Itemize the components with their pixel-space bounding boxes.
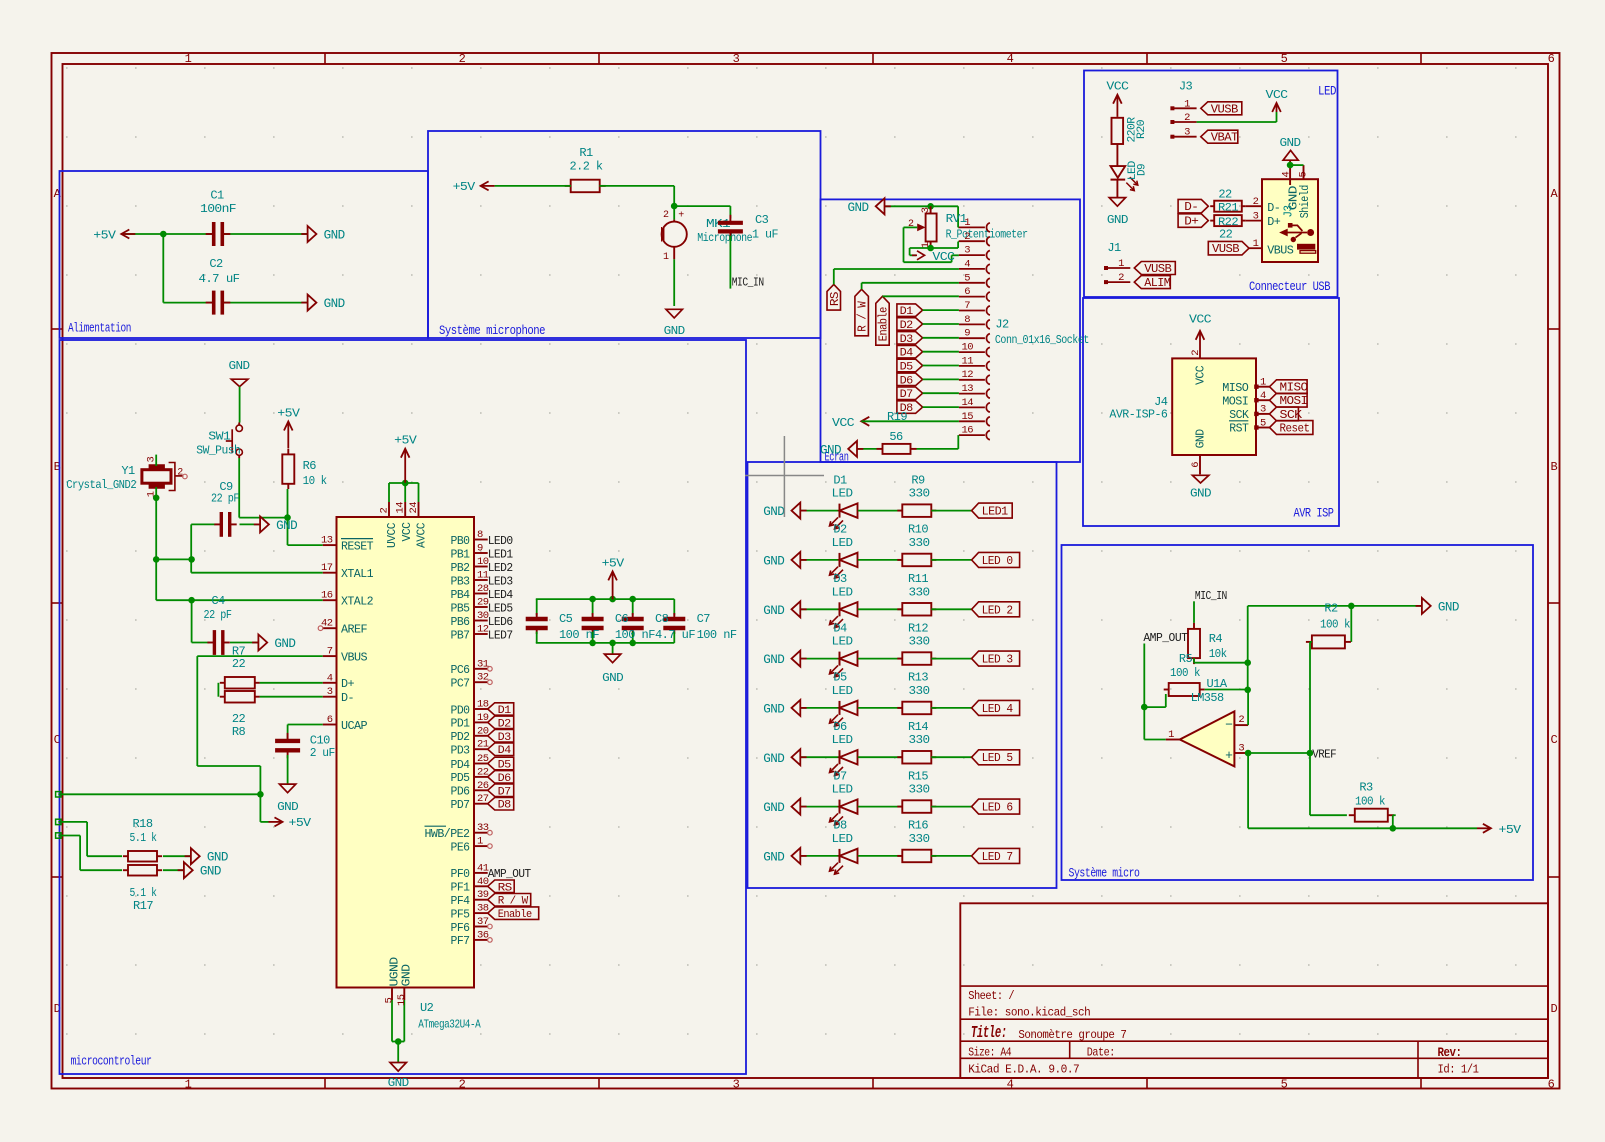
svg-text:+5V: +5V <box>394 434 417 448</box>
svg-text:C5: C5 <box>559 612 573 626</box>
svg-text:VUSB: VUSB <box>1212 243 1240 256</box>
svg-text:VBUS: VBUS <box>1267 244 1294 257</box>
svg-text:LED: LED <box>832 635 853 649</box>
svg-text:R15: R15 <box>908 769 928 783</box>
svg-text:VCC: VCC <box>932 250 954 264</box>
svg-text:Id: 1/1: Id: 1/1 <box>1438 1062 1479 1076</box>
svg-text:100 nF: 100 nF <box>559 628 599 642</box>
svg-text:D7: D7 <box>833 769 847 783</box>
svg-text:LED2: LED2 <box>488 561 513 575</box>
svg-text:1: 1 <box>1168 729 1174 741</box>
svg-text:32: 32 <box>477 672 489 684</box>
svg-text:7: 7 <box>964 300 970 312</box>
svg-text:D2: D2 <box>833 523 847 537</box>
svg-text:GND: GND <box>274 637 295 651</box>
svg-text:PD3: PD3 <box>451 745 471 758</box>
svg-text:AMP_OUT: AMP_OUT <box>488 867 531 881</box>
svg-text:LM358: LM358 <box>1191 691 1224 705</box>
svg-text:16: 16 <box>321 590 333 602</box>
svg-text:9: 9 <box>477 543 483 555</box>
svg-text:PB6: PB6 <box>451 616 471 629</box>
svg-text:4: 4 <box>1007 52 1014 66</box>
svg-text:D8: D8 <box>833 819 847 833</box>
svg-text:PF6: PF6 <box>451 922 471 935</box>
svg-text:D6: D6 <box>833 720 847 734</box>
svg-text:U1A: U1A <box>1207 677 1228 691</box>
svg-text:1: 1 <box>663 252 669 263</box>
svg-text:LED 6: LED 6 <box>982 802 1014 815</box>
svg-text:AMP_OUT: AMP_OUT <box>1143 631 1187 645</box>
svg-text:6: 6 <box>1548 52 1555 66</box>
svg-text:12: 12 <box>961 369 973 381</box>
svg-text:D+: D+ <box>1267 216 1281 229</box>
svg-text:D2: D2 <box>498 718 511 730</box>
svg-text:RS: RS <box>829 291 842 306</box>
svg-text:GND: GND <box>763 850 784 864</box>
svg-text:R6: R6 <box>303 459 317 473</box>
svg-text:17: 17 <box>321 562 333 574</box>
svg-text:LED 5: LED 5 <box>982 752 1014 765</box>
svg-text:22 pF: 22 pF <box>211 492 239 506</box>
svg-text:PB3: PB3 <box>451 575 471 588</box>
svg-text:330: 330 <box>909 684 930 698</box>
svg-text:10: 10 <box>961 342 973 354</box>
svg-text:GND: GND <box>207 851 228 865</box>
svg-text:PB1: PB1 <box>451 548 471 561</box>
svg-text:D+: D+ <box>1184 216 1199 229</box>
svg-text:5.1 k: 5.1 k <box>130 886 157 900</box>
svg-text:3: 3 <box>964 245 970 257</box>
svg-text:6: 6 <box>1190 462 1202 468</box>
svg-text:14: 14 <box>395 502 407 514</box>
svg-text:Alimentation: Alimentation <box>68 322 131 336</box>
svg-text:SW_Push: SW_Push <box>196 444 240 458</box>
svg-text:5: 5 <box>1281 1078 1288 1092</box>
svg-text:B: B <box>1550 460 1557 474</box>
svg-text:D5: D5 <box>498 760 511 772</box>
svg-text:Système micro: Système micro <box>1069 867 1140 881</box>
svg-text:9: 9 <box>964 328 970 340</box>
svg-text:LED6: LED6 <box>488 615 513 629</box>
svg-text:6: 6 <box>327 714 333 726</box>
svg-text:4: 4 <box>1281 172 1293 178</box>
svg-text:GND: GND <box>277 800 298 814</box>
svg-text:1: 1 <box>185 1078 192 1092</box>
svg-text:−: − <box>1225 717 1233 732</box>
svg-text:PF1: PF1 <box>451 882 471 895</box>
svg-text:AREF: AREF <box>341 624 368 637</box>
svg-text:LED: LED <box>832 733 853 747</box>
svg-text:R13: R13 <box>908 671 928 685</box>
svg-text:1: 1 <box>1253 238 1259 250</box>
svg-text:SCK: SCK <box>1229 409 1249 422</box>
svg-text:D-: D- <box>341 692 354 705</box>
svg-text:22 pF: 22 pF <box>204 608 232 622</box>
svg-text:3: 3 <box>1238 742 1244 754</box>
svg-text:4.7 uF: 4.7 uF <box>199 272 240 286</box>
svg-text:VBUS: VBUS <box>341 651 368 664</box>
svg-text:HWB/PE2: HWB/PE2 <box>425 828 471 841</box>
svg-text:GND: GND <box>763 752 784 766</box>
svg-text:2: 2 <box>908 219 914 230</box>
svg-text:7: 7 <box>327 646 333 658</box>
svg-text:D9: D9 <box>1136 164 1148 176</box>
svg-text:GND: GND <box>1195 429 1208 449</box>
svg-text:D1: D1 <box>900 306 914 318</box>
svg-text:3: 3 <box>327 686 333 698</box>
svg-text:4: 4 <box>964 258 970 270</box>
svg-text:PC7: PC7 <box>451 678 470 691</box>
svg-text:R12: R12 <box>908 621 928 635</box>
svg-text:8: 8 <box>477 529 483 541</box>
svg-text:J3: J3 <box>1283 205 1296 218</box>
svg-text:LED: LED <box>832 783 853 797</box>
svg-text:10 k: 10 k <box>303 474 327 488</box>
svg-text:GND: GND <box>324 297 345 311</box>
svg-text:33: 33 <box>477 822 489 834</box>
svg-text:VCC: VCC <box>1189 313 1211 327</box>
svg-text:Title:: Title: <box>971 1023 1007 1042</box>
svg-text:LED: LED <box>832 684 853 698</box>
svg-text:4.7 uF: 4.7 uF <box>655 628 695 642</box>
svg-text:LED 0: LED 0 <box>982 555 1014 568</box>
svg-text:5: 5 <box>1281 52 1288 66</box>
svg-text:3: 3 <box>1184 127 1190 139</box>
svg-text:R5: R5 <box>1179 652 1193 666</box>
svg-text:GND: GND <box>763 604 784 618</box>
svg-text:R20: R20 <box>1136 120 1148 139</box>
svg-text:PD6: PD6 <box>451 786 471 799</box>
svg-text:D3: D3 <box>900 334 913 346</box>
svg-text:+: + <box>1225 748 1233 763</box>
svg-text:MISO: MISO <box>1222 382 1249 395</box>
svg-text:D3: D3 <box>833 572 847 586</box>
svg-text:GND: GND <box>1438 600 1459 614</box>
svg-text:22: 22 <box>232 657 246 671</box>
svg-text:4: 4 <box>327 672 333 684</box>
svg-text:D3: D3 <box>498 732 511 744</box>
svg-text:D: D <box>1550 1002 1557 1016</box>
svg-text:VBAT: VBAT <box>1211 132 1239 145</box>
svg-text:2: 2 <box>1238 714 1244 726</box>
svg-text:5.1 k: 5.1 k <box>130 831 157 845</box>
svg-text:4: 4 <box>1007 1078 1014 1092</box>
svg-text:2 uF: 2 uF <box>310 746 335 760</box>
svg-text:MOSI: MOSI <box>1222 395 1248 408</box>
svg-text:PB2: PB2 <box>451 562 471 575</box>
svg-text:VCC: VCC <box>1106 80 1128 94</box>
svg-text:100 nF: 100 nF <box>697 628 737 642</box>
svg-text:File: sono.kicad_sch: File: sono.kicad_sch <box>968 1005 1090 1019</box>
svg-text:14: 14 <box>961 397 973 409</box>
svg-text:R10: R10 <box>908 523 928 537</box>
svg-text:+5V: +5V <box>277 407 300 421</box>
svg-text:8: 8 <box>964 314 970 326</box>
svg-text:Enable: Enable <box>878 307 891 342</box>
svg-text:330: 330 <box>909 585 930 599</box>
svg-text:100nF: 100nF <box>200 202 236 216</box>
svg-text:Shield: Shield <box>1299 185 1312 218</box>
svg-text:C6: C6 <box>615 612 629 626</box>
svg-text:100 k: 100 k <box>1170 666 1200 680</box>
svg-text:LED1: LED1 <box>982 506 1009 519</box>
svg-text:D7: D7 <box>900 389 913 401</box>
svg-text:C7: C7 <box>697 612 711 626</box>
svg-text:C3: C3 <box>755 213 769 227</box>
svg-text:GND: GND <box>763 801 784 815</box>
svg-text:2: 2 <box>964 231 970 243</box>
svg-text:5: 5 <box>964 272 970 284</box>
svg-text:LED: LED <box>1318 85 1336 99</box>
svg-text:LED: LED <box>832 585 853 599</box>
svg-text:LED: LED <box>832 536 853 550</box>
svg-text:6: 6 <box>1548 1078 1555 1092</box>
svg-text:VCC: VCC <box>832 416 854 430</box>
svg-text:LED 3: LED 3 <box>982 654 1014 667</box>
svg-text:D5: D5 <box>833 671 847 685</box>
svg-text:PB5: PB5 <box>451 602 471 615</box>
svg-text:PB4: PB4 <box>451 589 471 602</box>
svg-text:330: 330 <box>909 635 930 649</box>
svg-text:Y1: Y1 <box>121 464 135 478</box>
svg-text:1: 1 <box>477 836 483 848</box>
svg-text:AVR ISP: AVR ISP <box>1294 507 1334 521</box>
svg-text:LED3: LED3 <box>488 574 513 588</box>
svg-text:LED5: LED5 <box>488 601 513 615</box>
svg-text:D6: D6 <box>498 773 511 785</box>
svg-text:1 uF: 1 uF <box>752 227 778 241</box>
svg-text:Enable: Enable <box>498 909 532 921</box>
svg-text:MIC_IN: MIC_IN <box>732 275 764 289</box>
svg-text:2: 2 <box>1118 272 1124 284</box>
svg-text:XTAL2: XTAL2 <box>341 596 374 609</box>
svg-text:R1: R1 <box>579 146 593 160</box>
svg-text:GND: GND <box>401 964 414 987</box>
svg-text:C8: C8 <box>655 612 669 626</box>
svg-text:1: 1 <box>1184 98 1190 110</box>
svg-text:SW1: SW1 <box>208 429 230 443</box>
svg-text:GND: GND <box>763 505 784 519</box>
svg-text:RST: RST <box>1229 423 1249 436</box>
svg-text:AVR-ISP-6: AVR-ISP-6 <box>1109 408 1167 422</box>
svg-text:microcontroleur: microcontroleur <box>71 1055 152 1069</box>
svg-text:22: 22 <box>232 712 246 726</box>
svg-text:GND: GND <box>229 359 250 373</box>
svg-text:PF4: PF4 <box>451 895 471 908</box>
svg-text:GND: GND <box>1107 213 1128 227</box>
svg-text:LED0: LED0 <box>488 534 513 548</box>
svg-text:3: 3 <box>1253 210 1259 222</box>
svg-text:36: 36 <box>477 929 489 941</box>
svg-text:LED 2: LED 2 <box>982 604 1014 617</box>
svg-text:+5V: +5V <box>453 180 476 194</box>
svg-text:22: 22 <box>1219 228 1233 242</box>
svg-text:PC6: PC6 <box>451 664 471 677</box>
svg-text:2: 2 <box>663 210 669 221</box>
svg-text:R4: R4 <box>1209 632 1223 646</box>
svg-text:R9: R9 <box>911 473 925 487</box>
svg-text:C1: C1 <box>210 189 224 203</box>
svg-text:100 k: 100 k <box>1320 618 1350 632</box>
svg-text:+: + <box>678 211 684 222</box>
svg-text:31: 31 <box>477 658 489 670</box>
svg-text:11: 11 <box>961 355 973 367</box>
svg-text:R2: R2 <box>1324 602 1338 616</box>
svg-text:Sonomètre groupe 7: Sonomètre groupe 7 <box>1018 1028 1126 1042</box>
svg-text:J1: J1 <box>1107 241 1121 255</box>
svg-text:LED 4: LED 4 <box>982 703 1014 716</box>
svg-text:13: 13 <box>961 383 973 395</box>
svg-text:Système microphone: Système microphone <box>439 324 545 338</box>
svg-text:PF0: PF0 <box>451 868 471 881</box>
svg-text:LED1: LED1 <box>488 547 513 561</box>
svg-text:Sheet: /: Sheet: / <box>968 989 1014 1003</box>
svg-text:5: 5 <box>1260 417 1266 429</box>
svg-text:PB0: PB0 <box>451 535 471 548</box>
svg-text:3: 3 <box>733 52 740 66</box>
svg-text:VREF: VREF <box>1312 748 1336 762</box>
svg-text:2: 2 <box>459 1078 466 1092</box>
svg-text:LED: LED <box>832 832 853 846</box>
svg-text:GND: GND <box>602 671 623 685</box>
svg-text:15: 15 <box>961 411 973 423</box>
svg-text:PE6: PE6 <box>451 841 471 854</box>
svg-text:330: 330 <box>909 783 930 797</box>
svg-text:VCC: VCC <box>1195 365 1208 385</box>
svg-text:+5V: +5V <box>93 228 116 242</box>
svg-text:C: C <box>1550 733 1557 747</box>
svg-text:2.2 k: 2.2 k <box>570 160 603 174</box>
svg-text:Reset: Reset <box>1280 423 1310 436</box>
svg-text:5: 5 <box>1298 172 1310 178</box>
svg-text:MIC_IN: MIC_IN <box>1195 589 1227 603</box>
svg-text:D6: D6 <box>900 375 913 387</box>
svg-text:LED: LED <box>832 487 853 501</box>
svg-text:R18: R18 <box>133 817 153 831</box>
svg-text:D4: D4 <box>900 348 914 360</box>
svg-text:U2: U2 <box>420 1001 434 1015</box>
svg-text:D-: D- <box>1267 202 1280 215</box>
svg-text:+5V: +5V <box>1499 823 1522 837</box>
svg-text:330: 330 <box>909 536 930 550</box>
svg-text:+5V: +5V <box>289 816 312 830</box>
svg-text:2: 2 <box>1190 350 1202 356</box>
svg-text:VCC: VCC <box>1266 88 1288 102</box>
svg-text:13: 13 <box>321 535 333 547</box>
svg-text:LED4: LED4 <box>488 588 513 602</box>
svg-text:R3: R3 <box>1359 781 1373 795</box>
svg-text:PF7: PF7 <box>451 935 470 948</box>
svg-text:GND: GND <box>820 443 841 457</box>
svg-text:AVCC: AVCC <box>415 522 428 548</box>
svg-text:330: 330 <box>909 487 930 501</box>
svg-text:ALIM: ALIM <box>1144 277 1171 290</box>
svg-text:R16: R16 <box>908 819 928 833</box>
svg-text:C4: C4 <box>211 594 225 608</box>
svg-text:VUSB: VUSB <box>1144 263 1172 276</box>
svg-text:GND: GND <box>664 324 685 338</box>
svg-text:D+: D+ <box>341 678 355 691</box>
svg-text:R21: R21 <box>1218 203 1239 215</box>
svg-text:1: 1 <box>964 217 970 229</box>
svg-text:6: 6 <box>964 286 970 298</box>
svg-text:ATmega32U4-A: ATmega32U4-A <box>418 1018 481 1032</box>
svg-text:4: 4 <box>1260 390 1266 402</box>
svg-text:56: 56 <box>889 430 903 444</box>
svg-text:Size: A4: Size: A4 <box>968 1045 1011 1059</box>
svg-text:37: 37 <box>477 916 489 928</box>
svg-text:PD2: PD2 <box>451 731 471 744</box>
svg-text:PD7: PD7 <box>451 799 470 812</box>
svg-text:15: 15 <box>396 994 408 1006</box>
svg-text:PD1: PD1 <box>451 718 471 731</box>
svg-text:GND: GND <box>848 201 869 215</box>
svg-text:LED 7: LED 7 <box>982 851 1013 864</box>
svg-text:R / W: R / W <box>498 896 529 908</box>
svg-text:+5V: +5V <box>602 556 625 570</box>
svg-text:Crystal_GND2: Crystal_GND2 <box>66 478 136 492</box>
svg-text:XTAL1: XTAL1 <box>341 568 374 581</box>
svg-text:Date:: Date: <box>1087 1045 1115 1059</box>
svg-text:UGND: UGND <box>389 957 402 987</box>
svg-text:Conn_01x16_Socket: Conn_01x16_Socket <box>995 333 1089 347</box>
svg-text:D7: D7 <box>498 786 511 798</box>
svg-text:RS: RS <box>498 882 513 894</box>
svg-text:D4: D4 <box>498 745 512 757</box>
svg-text:J3: J3 <box>1179 79 1193 93</box>
svg-text:100 nF: 100 nF <box>615 628 655 642</box>
svg-text:2: 2 <box>1184 112 1190 124</box>
svg-text:RESET: RESET <box>341 540 374 553</box>
svg-text:3: 3 <box>1260 404 1266 416</box>
svg-text:GND: GND <box>276 519 297 533</box>
svg-text:D8: D8 <box>498 800 511 812</box>
svg-text:PD4: PD4 <box>451 759 471 772</box>
svg-text:D1: D1 <box>498 705 512 717</box>
svg-text:D-: D- <box>1184 201 1198 214</box>
svg-text:2: 2 <box>177 468 183 479</box>
svg-text:GND: GND <box>1280 136 1301 150</box>
svg-text:1: 1 <box>1260 377 1266 389</box>
svg-text:PD5: PD5 <box>451 772 471 785</box>
svg-text:R11: R11 <box>908 572 928 586</box>
svg-text:5: 5 <box>384 998 396 1004</box>
svg-text:2: 2 <box>1253 196 1259 208</box>
svg-text:R14: R14 <box>908 720 928 734</box>
svg-text:GND: GND <box>200 865 221 879</box>
svg-text:22: 22 <box>1218 188 1232 202</box>
svg-text:1: 1 <box>1118 258 1124 270</box>
svg-text:330: 330 <box>909 733 930 747</box>
svg-text:GND: GND <box>388 1076 409 1090</box>
svg-text:VUSB: VUSB <box>1211 103 1239 116</box>
svg-text:24: 24 <box>408 502 420 514</box>
svg-text:PB7: PB7 <box>451 629 470 642</box>
svg-text:100 k: 100 k <box>1355 795 1385 809</box>
svg-text:GND: GND <box>763 554 784 568</box>
svg-text:16: 16 <box>961 425 973 437</box>
svg-text:LED7: LED7 <box>488 628 513 642</box>
svg-text:PD0: PD0 <box>451 704 471 717</box>
svg-text:330: 330 <box>909 832 930 846</box>
svg-text:PF5: PF5 <box>451 908 471 921</box>
svg-text:D4: D4 <box>833 621 847 635</box>
svg-text:R17: R17 <box>133 899 153 913</box>
svg-text:3: 3 <box>920 207 932 213</box>
svg-text:Connecteur USB: Connecteur USB <box>1249 280 1331 294</box>
svg-text:GND: GND <box>1190 486 1211 500</box>
svg-text:UCAP: UCAP <box>341 720 368 733</box>
